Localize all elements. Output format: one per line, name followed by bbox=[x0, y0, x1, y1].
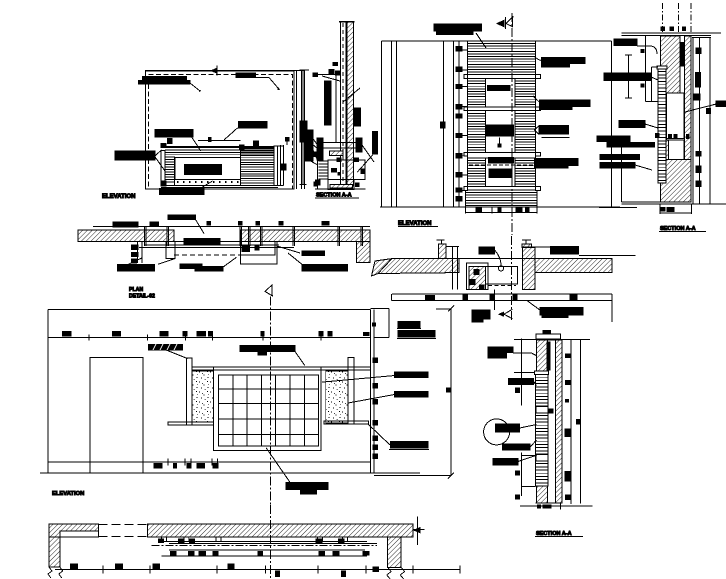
plan6 centerline bbox=[510, 236, 512, 322]
louver column frame bbox=[468, 41, 536, 190]
louver unit top line bbox=[161, 146, 274, 148]
mid detail box bbox=[240, 241, 275, 255]
left shelf bbox=[168, 422, 214, 425]
strip left leg break bbox=[48, 567, 63, 578]
grid horizontal lines bbox=[219, 389, 319, 435]
s8 top blob bbox=[543, 331, 551, 334]
label blob right lower bbox=[356, 138, 362, 152]
chimney hatched wall bbox=[347, 22, 353, 186]
strip tick row1 bbox=[159, 539, 164, 543]
leader right small bbox=[277, 246, 300, 253]
label blob left lower bbox=[317, 138, 323, 160]
divider band1 bbox=[468, 75, 536, 79]
svg-text:ELEVATION: ELEVATION bbox=[52, 491, 84, 497]
s8 detail circle bbox=[484, 419, 510, 445]
section4 louvers bbox=[468, 161, 486, 184]
s8 label e bbox=[493, 459, 518, 465]
pier bottom merged hatch bbox=[660, 160, 691, 202]
section3 window blob bbox=[485, 125, 513, 136]
pier B hatched bbox=[685, 36, 692, 160]
dashed cavity line bbox=[174, 254, 240, 256]
left dimension line bbox=[302, 70, 304, 185]
pier A top hatched block bbox=[660, 36, 680, 93]
section2 window blob bbox=[487, 85, 509, 90]
plan6 bottom blob bbox=[472, 310, 490, 319]
big elevation outline bbox=[48, 309, 374, 473]
top-center blob bbox=[168, 215, 196, 220]
dotted row under window bbox=[177, 181, 239, 183]
band gap bottom outline bbox=[174, 240, 240, 242]
grid vertical lines bbox=[233, 375, 304, 446]
louver footer bbox=[465, 190, 537, 207]
leader jamb to underleft blob bbox=[128, 258, 142, 265]
s8 ladder cap bbox=[535, 371, 549, 375]
s8 label a bbox=[488, 347, 513, 353]
right label r2 bbox=[539, 100, 590, 107]
label blob B2 bbox=[236, 73, 255, 78]
strip right leg break bbox=[387, 568, 405, 579]
label blob B1 bbox=[143, 76, 187, 80]
left label l6 bbox=[600, 163, 635, 169]
right edge label blob bbox=[716, 101, 726, 106]
right tick squares bbox=[696, 48, 701, 54]
left cap square bottom bbox=[161, 181, 166, 186]
base leader right bbox=[357, 155, 372, 172]
recess window lower bbox=[669, 140, 685, 160]
leader from B2 bbox=[255, 77, 269, 79]
left dimension upper bbox=[628, 55, 630, 98]
bottom lines bbox=[621, 201, 691, 203]
leader from B1 bbox=[187, 80, 201, 91]
s8 left dimension bbox=[520, 338, 522, 405]
black strip between piers bbox=[681, 43, 684, 66]
bottom band line bbox=[48, 461, 370, 463]
fireplace top lines bbox=[192, 366, 370, 368]
left bracket lines bbox=[645, 36, 647, 101]
left stipple panel bbox=[192, 371, 213, 422]
s8 top line bbox=[514, 339, 590, 341]
right cap of unit bbox=[274, 146, 278, 186]
window frame in unit bbox=[175, 158, 241, 180]
strip bottom squares bbox=[71, 564, 78, 569]
right label rb1 bbox=[395, 372, 428, 378]
right louver block bbox=[241, 147, 275, 186]
base bottom line bbox=[315, 188, 366, 190]
leader ticks into column bbox=[462, 49, 468, 51]
plan6 jamb hatched block bbox=[469, 266, 486, 289]
right wall label blob bbox=[305, 130, 314, 161]
s8 ladder gap2 bbox=[536, 455, 548, 462]
plan6 recess left wall lines bbox=[451, 247, 453, 290]
left label l2 bbox=[619, 121, 645, 128]
ladder strip bbox=[658, 69, 666, 183]
plan6 jamb dots bbox=[474, 270, 479, 275]
plan6 horiz top-right line bbox=[579, 255, 636, 257]
base leader left bbox=[308, 160, 317, 165]
plan6 top blob b bbox=[551, 246, 579, 254]
label blob far-left bbox=[300, 121, 307, 142]
right edge tick squares bbox=[373, 358, 378, 363]
s8 left horizontals bbox=[521, 455, 535, 457]
cap line over louver unit bbox=[198, 140, 241, 142]
strip left leg bbox=[49, 537, 60, 567]
svg-text:PLAN: PLAN bbox=[129, 287, 143, 293]
base hatched block upper bbox=[330, 151, 344, 156]
pier A left sliver bbox=[660, 93, 666, 140]
left label l4 bbox=[607, 142, 654, 147]
plan6 recess box bbox=[486, 266, 518, 283]
pier A sliver 2 bbox=[660, 140, 668, 160]
top dash-dot stubs bbox=[662, 3, 664, 33]
base left edge bbox=[317, 143, 319, 190]
tick lines crossing band bbox=[144, 226, 146, 246]
top-left label blob bbox=[434, 24, 481, 31]
wall tick squares column bbox=[456, 47, 462, 51]
plan6 leader to right blob bbox=[527, 301, 540, 311]
plan hatched band right bbox=[240, 230, 370, 241]
strip right arrow bbox=[413, 527, 421, 533]
leader from top-left label bbox=[637, 46, 657, 54]
s8 black strip bbox=[547, 342, 550, 370]
right shelf bbox=[324, 421, 368, 424]
top edge line extension bbox=[145, 70, 305, 72]
ticks above band bbox=[113, 222, 138, 227]
leader right big bbox=[288, 253, 304, 266]
left cap square top bbox=[161, 144, 166, 148]
section4 blob a bbox=[488, 157, 513, 163]
mid detail squares bbox=[242, 246, 250, 252]
bottom tick squares bbox=[661, 208, 665, 212]
plan6 top line bbox=[392, 258, 612, 260]
s8 ladder top tick line bbox=[514, 371, 535, 373]
label blob right of chimney bbox=[355, 108, 361, 126]
plan6 recess box dashed line bbox=[488, 285, 516, 287]
blob in band gap bbox=[184, 239, 220, 246]
left ladder strip of unit bbox=[165, 157, 175, 186]
dim square right bbox=[446, 388, 450, 392]
line under band a bbox=[145, 244, 279, 246]
upper band tick stems bbox=[88, 334, 90, 340]
plan6 block B bbox=[523, 247, 535, 289]
strip right arrow stem bbox=[416, 516, 418, 545]
svg-text:DETAIL-02: DETAIL-02 bbox=[129, 294, 155, 300]
divider band2 bbox=[468, 107, 536, 111]
cap tick middle bbox=[208, 138, 211, 142]
left jamb squares bbox=[132, 245, 139, 250]
top cap lines bbox=[621, 32, 721, 34]
leader from right label bbox=[685, 104, 716, 112]
left pilaster bbox=[187, 358, 192, 425]
left cap column of unit bbox=[161, 151, 165, 187]
right return wall lines bbox=[296, 71, 298, 190]
mid detail outer box bbox=[240, 241, 276, 264]
upper right edge squares bbox=[372, 323, 375, 326]
left label l5 bbox=[600, 155, 639, 160]
section cut marker above big elevation bbox=[265, 285, 272, 296]
plan6 mullion hatch right upper bbox=[522, 244, 532, 248]
right stipple panel bbox=[326, 371, 348, 423]
plan6 mullion ticks right bbox=[525, 240, 527, 244]
elevation bottom ground line bbox=[380, 206, 620, 208]
cap tick right bbox=[254, 141, 259, 146]
ladder cap bbox=[657, 66, 667, 69]
unit top tick bbox=[240, 145, 245, 149]
s8 far right tick bbox=[577, 420, 581, 424]
chimney left strip bbox=[340, 22, 346, 186]
plan6 open cut arrow bbox=[504, 309, 513, 318]
s8 label d bbox=[503, 444, 531, 450]
right label r3 bbox=[539, 126, 569, 135]
left small squares bbox=[641, 50, 644, 53]
section cut arrow open bbox=[506, 17, 513, 27]
plan6 band right segment bbox=[535, 259, 612, 273]
s8 label b leader bbox=[534, 382, 537, 386]
plan6 band left segment bbox=[378, 259, 459, 274]
base lower box bbox=[328, 180, 354, 190]
right bracket lines bbox=[280, 145, 282, 186]
s8 label a leader bbox=[513, 352, 532, 354]
right side square mark bbox=[281, 164, 287, 170]
plan top line bbox=[93, 225, 370, 227]
plan6 band cut piece bbox=[372, 259, 392, 276]
right label rb3 bbox=[390, 442, 428, 449]
section3 window bbox=[485, 111, 515, 153]
rotated label blob left bbox=[325, 81, 332, 125]
right dim square bbox=[706, 109, 710, 114]
label blob inside window bbox=[185, 165, 222, 175]
leader across chimney bbox=[343, 88, 360, 102]
dashed inner wall line bbox=[149, 74, 293, 189]
left label l3 bbox=[597, 136, 630, 142]
chimney top cap bbox=[339, 21, 354, 23]
section2 louvers bbox=[468, 81, 486, 104]
upper louver slats bbox=[165, 148, 274, 155]
right label r4 bbox=[535, 158, 579, 165]
bottom center blob bbox=[286, 482, 328, 489]
right wall small square bbox=[316, 180, 321, 185]
label blob right small bbox=[302, 251, 325, 256]
top tick blobs bbox=[661, 27, 664, 30]
wall outline top-left elevation bbox=[145, 71, 294, 189]
door opening bbox=[90, 358, 143, 474]
s8 left dim squares bbox=[516, 388, 520, 392]
sill bumps left bbox=[464, 75, 467, 79]
s8 ladder bbox=[536, 375, 548, 487]
top-left label bbox=[614, 39, 637, 46]
base ladder bbox=[319, 161, 329, 179]
leader lines to base detail bbox=[307, 131, 320, 148]
plan6 solid cut arrow bbox=[498, 312, 504, 317]
left label l1 bbox=[604, 73, 651, 80]
plan6 vertical drop bbox=[494, 290, 496, 311]
section3 louvers bbox=[468, 114, 486, 150]
plan6 circle bbox=[498, 266, 503, 271]
plan6 right lower blob bbox=[540, 308, 583, 316]
right dim tick top bbox=[285, 138, 289, 142]
right tall label blob bbox=[373, 132, 378, 155]
right wall leader bbox=[313, 145, 322, 152]
strip band hatched left bbox=[49, 524, 99, 537]
s8 leaders bbox=[520, 425, 537, 429]
top label hatchblob bbox=[148, 344, 182, 350]
strip tick row2 bbox=[171, 552, 176, 556]
upper band ticks bbox=[63, 332, 71, 337]
right label r1 bbox=[541, 58, 585, 64]
s8 bottom stub bbox=[560, 503, 562, 510]
section4 dashed line bbox=[469, 164, 538, 166]
band right leg bbox=[356, 241, 370, 262]
s8 label b bbox=[508, 378, 533, 384]
base detail top lines bbox=[318, 142, 359, 144]
right pilaster bbox=[348, 358, 354, 424]
arrow marker on top edge bbox=[210, 68, 218, 74]
top tick lines bbox=[314, 73, 341, 75]
sill bumps right bbox=[535, 75, 540, 79]
inner wall lines bbox=[443, 41, 445, 207]
label blob B6 bottom bbox=[160, 189, 205, 195]
leader jambbox bbox=[158, 259, 175, 265]
strip band gap dashed edges bbox=[99, 523, 148, 525]
base detail box bbox=[328, 160, 365, 179]
plan6 jamb outline bbox=[466, 263, 488, 290]
s8 top cap rect bbox=[536, 334, 560, 339]
strip bottom line bbox=[55, 568, 460, 570]
section cut arrow solid bbox=[496, 20, 505, 28]
divider band4 bbox=[468, 187, 536, 190]
section3 small mark bbox=[499, 138, 501, 145]
top label center bbox=[240, 346, 295, 352]
under-plan6 bracket bbox=[391, 300, 612, 302]
base lower hatch bbox=[330, 184, 353, 188]
s8 second hatched strip bbox=[555, 340, 562, 503]
s8 right tick squares bbox=[565, 354, 570, 358]
strip lines under band bbox=[162, 541, 368, 543]
base black squares bbox=[337, 158, 341, 162]
right face lines bbox=[692, 38, 694, 205]
s8 bottom ticks bbox=[538, 505, 541, 508]
ground line bbox=[40, 472, 420, 474]
centerline of elevation bbox=[511, 13, 513, 235]
bracket box around label bbox=[388, 309, 390, 338]
upper band line bbox=[48, 336, 370, 338]
bottom dim bracket bbox=[660, 212, 691, 214]
left jamb verticals bbox=[136, 241, 138, 263]
divider band3 bbox=[468, 152, 536, 158]
grid window frame bbox=[214, 367, 321, 451]
bottom tick stems bbox=[167, 459, 169, 466]
s8 inner strip bbox=[548, 340, 556, 503]
cap tick left bbox=[168, 139, 173, 144]
louver band section1 bbox=[468, 44, 536, 73]
label blob under-left bbox=[118, 265, 155, 272]
bottom ticks under elevation bbox=[465, 211, 537, 213]
section4 window bbox=[485, 158, 515, 187]
elevation outline bbox=[381, 41, 611, 207]
line under band b bbox=[139, 247, 294, 249]
plan6 top right line bbox=[523, 246, 551, 248]
left face line bbox=[335, 72, 337, 143]
label blob right big bbox=[302, 265, 348, 272]
top tick squares bbox=[313, 73, 318, 76]
leader from top-center blob bbox=[196, 220, 205, 234]
right dimension line bbox=[450, 309, 452, 476]
plan6 recess top line bbox=[446, 246, 459, 248]
strip bottom tick stems bbox=[102, 565, 104, 573]
recess window upper bbox=[667, 93, 685, 138]
s8 bottom lines bbox=[536, 502, 562, 504]
s8 ladder break square bbox=[548, 409, 553, 413]
leaders from B5 bbox=[155, 150, 161, 156]
strip left band notch bbox=[60, 531, 99, 537]
s8 ladder gap1 bbox=[536, 407, 548, 414]
leader from B3 bbox=[191, 136, 201, 151]
plan6 right edge vertical bbox=[611, 294, 613, 322]
s8 right verticals bbox=[570, 340, 572, 505]
plan hatched band left bbox=[78, 230, 174, 241]
right label PLAN DETAIL.01 bbox=[398, 322, 420, 328]
label blob B4 bbox=[239, 122, 268, 129]
jamb box bbox=[166, 241, 175, 258]
label blob under-mid bbox=[180, 264, 202, 269]
left dimension lower bbox=[621, 147, 623, 202]
leader from B6 bbox=[200, 181, 213, 189]
left edge square mark bbox=[441, 122, 446, 128]
strip centerline bbox=[270, 505, 272, 579]
leader from B4 bbox=[224, 128, 238, 140]
label blob B3 bbox=[155, 130, 193, 138]
plan6 top blob a bbox=[479, 247, 495, 254]
strip under-profile notches bbox=[162, 537, 167, 542]
section4 blob b bbox=[489, 169, 512, 177]
bottom band ticks bbox=[154, 463, 162, 468]
unit bottom lines bbox=[161, 185, 284, 187]
section2 window bbox=[485, 78, 515, 107]
strip right leg bbox=[388, 537, 402, 568]
divider tick squares bbox=[656, 133, 659, 137]
plan6 line under bbox=[392, 293, 612, 295]
leader from top label bbox=[476, 33, 486, 48]
plan6 mullion hatch left bbox=[439, 244, 446, 259]
label blob B5 left bbox=[115, 151, 155, 160]
s8 label c bbox=[496, 424, 520, 432]
svg-text:ELEVATION: ELEVATION bbox=[102, 194, 135, 200]
leader mid bbox=[223, 257, 237, 267]
right label rb2 bbox=[395, 392, 429, 398]
centerline big elevation bbox=[270, 297, 272, 506]
s8 hatched column bbox=[537, 340, 548, 503]
strip band hatched right bbox=[148, 524, 413, 537]
